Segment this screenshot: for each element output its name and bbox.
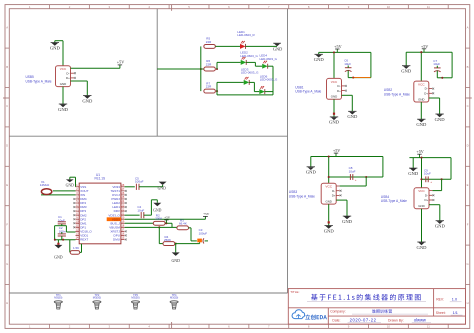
svg-text:C: C xyxy=(6,104,8,108)
svg-text:USB-Type A_Male: USB-Type A_Male xyxy=(295,90,321,94)
svg-text:10uF: 10uF xyxy=(349,169,356,173)
svg-text:GND: GND xyxy=(306,170,317,175)
svg-text:LED-0603_R: LED-0603_R xyxy=(237,33,255,37)
svg-text:FE1.1S: FE1.1S xyxy=(95,177,106,181)
svg-text:GND: GND xyxy=(58,107,69,112)
svg-text:1.0: 1.0 xyxy=(452,297,457,301)
svg-text:GND: GND xyxy=(324,228,335,233)
svg-text:GND: GND xyxy=(325,199,331,203)
svg-text:G: G xyxy=(6,262,8,266)
svg-text:250K: 250K xyxy=(164,238,171,242)
svg-text:H: H xyxy=(467,301,469,305)
svg-text:D+: D+ xyxy=(425,198,429,202)
svg-text:+: + xyxy=(355,178,357,182)
svg-text:GND: GND xyxy=(416,122,427,127)
svg-text:+5V: +5V xyxy=(333,148,340,153)
svg-text:10: 10 xyxy=(387,325,391,329)
svg-text:LED-0603_G: LED-0603_G xyxy=(260,57,278,61)
svg-text:22R: 22R xyxy=(206,84,212,88)
svg-text:10uF: 10uF xyxy=(424,172,431,176)
svg-text:11: 11 xyxy=(427,5,430,9)
svg-text:B: B xyxy=(467,65,469,69)
svg-text:E: E xyxy=(467,183,469,187)
svg-text:GND: GND xyxy=(60,82,66,86)
svg-text:M3(50): M3(50) xyxy=(54,296,62,300)
svg-text:Sheet:: Sheet: xyxy=(436,311,446,315)
svg-text:GND: GND xyxy=(408,171,419,176)
svg-text:USB-Type A_Male: USB-Type A_Male xyxy=(384,92,410,96)
svg-text:GND: GND xyxy=(82,98,93,103)
svg-text:D+: D+ xyxy=(66,76,70,80)
svg-text:2020-07-22: 2020-07-22 xyxy=(350,318,377,323)
svg-text:B: B xyxy=(6,65,8,69)
svg-text:GND: GND xyxy=(347,114,358,119)
svg-text:GND: GND xyxy=(435,224,446,229)
svg-text:D+: D+ xyxy=(337,89,341,93)
svg-text:LED-0603_G: LED-0603_G xyxy=(241,71,259,75)
svg-text:olwww: olwww xyxy=(414,318,426,323)
svg-text:11: 11 xyxy=(427,325,430,329)
svg-text:100uF: 100uF xyxy=(135,180,144,184)
svg-text:+5V: +5V xyxy=(421,44,428,49)
svg-text:D+: D+ xyxy=(424,92,428,96)
svg-text:USB-Type A_Male: USB-Type A_Male xyxy=(26,79,52,83)
svg-text:G: G xyxy=(467,262,469,266)
svg-text:GND: GND xyxy=(401,69,412,74)
svg-text:GND: GND xyxy=(418,97,424,101)
svg-text:GND: GND xyxy=(54,255,63,259)
svg-text:LED-0603_G: LED-0603_G xyxy=(260,78,278,82)
svg-text:GND: GND xyxy=(171,259,180,263)
svg-text:+: + xyxy=(430,180,432,184)
svg-text:D+: D+ xyxy=(332,194,336,198)
svg-text:+5V: +5V xyxy=(334,44,341,49)
svg-text:GND: GND xyxy=(418,204,424,208)
svg-text:GND: GND xyxy=(342,219,353,224)
svg-text:M3(50): M3(50) xyxy=(170,296,178,300)
svg-text:A: A xyxy=(6,25,8,29)
svg-text:USB-Type A_Male: USB-Type A_Male xyxy=(289,194,315,198)
svg-text:D-: D- xyxy=(425,193,428,197)
svg-text:F: F xyxy=(6,222,8,226)
svg-text:66.4K: 66.4K xyxy=(179,221,187,225)
svg-text:GND: GND xyxy=(314,57,325,62)
svg-text:REV:: REV: xyxy=(436,297,444,301)
svg-text:D-: D- xyxy=(337,84,340,88)
svg-text:+5V: +5V xyxy=(164,216,171,220)
svg-text:LED-0603_G: LED-0603_G xyxy=(240,54,258,58)
svg-text:GND: GND xyxy=(273,47,282,52)
svg-text:10: 10 xyxy=(387,5,391,9)
svg-text:GND: GND xyxy=(417,245,428,250)
svg-text:GND: GND xyxy=(435,117,446,122)
svg-text:A: A xyxy=(467,25,469,29)
svg-text:D-: D- xyxy=(332,189,335,193)
svg-text:200K: 200K xyxy=(155,216,162,220)
svg-text:+5V: +5V xyxy=(203,212,210,216)
svg-text:GND: GND xyxy=(329,120,340,125)
svg-text:10uF: 10uF xyxy=(344,62,351,66)
svg-text:+5V: +5V xyxy=(416,149,423,154)
svg-text:TITLE:: TITLE: xyxy=(290,290,299,294)
svg-text:E: E xyxy=(6,183,8,187)
svg-text:M3(50): M3(50) xyxy=(93,296,101,300)
svg-text:DMU: DMU xyxy=(113,238,120,242)
svg-text:REXT: REXT xyxy=(80,238,88,242)
svg-text:Date:: Date: xyxy=(332,319,340,323)
svg-text:+5V: +5V xyxy=(117,60,124,65)
svg-text:22R: 22R xyxy=(206,40,212,44)
svg-text:H: H xyxy=(6,301,8,305)
svg-text:10uF: 10uF xyxy=(433,62,440,66)
svg-text:1/1: 1/1 xyxy=(453,311,458,315)
svg-text:GND: GND xyxy=(50,46,61,51)
svg-text:C: C xyxy=(467,104,469,108)
svg-text:1.5K: 1.5K xyxy=(73,246,79,250)
svg-text:100uF: 100uF xyxy=(199,231,208,235)
svg-text:Company:: Company: xyxy=(330,309,346,313)
svg-text:GND: GND xyxy=(158,186,166,190)
svg-text:GND: GND xyxy=(153,209,161,213)
svg-text:M3(50): M3(50) xyxy=(131,296,139,300)
svg-text:Drawn By:: Drawn By: xyxy=(388,319,404,323)
svg-text:GND: GND xyxy=(331,95,337,99)
svg-text:USB-Type A_Male: USB-Type A_Male xyxy=(381,199,407,203)
svg-text:12MHz: 12MHz xyxy=(40,183,50,187)
svg-text:D: D xyxy=(467,144,469,148)
svg-text:10uF: 10uF xyxy=(137,208,144,212)
svg-text:GND: GND xyxy=(66,184,74,188)
svg-text:F: F xyxy=(467,222,469,226)
svg-text:D-: D- xyxy=(425,87,428,91)
svg-text:D-: D- xyxy=(66,71,69,75)
svg-text:D: D xyxy=(6,144,8,148)
svg-text:22R: 22R xyxy=(206,62,212,66)
